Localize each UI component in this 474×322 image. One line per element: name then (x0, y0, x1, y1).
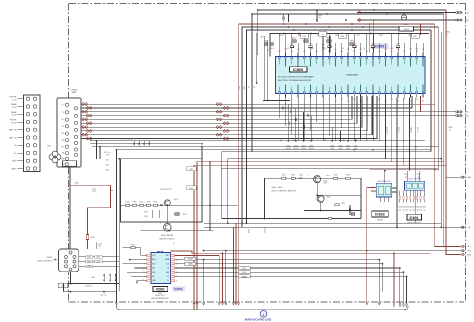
bus wire labels (86, 256, 93, 258)
IC601 inner marks (407, 183, 412, 188)
connector CN600 body (57, 98, 81, 167)
svg-text:47μ: 47μ (406, 209, 409, 211)
svg-text:(MU): (MU) (468, 254, 472, 256)
svg-text:(RST): (RST) (96, 257, 100, 259)
svg-text:(+B): (+B) (468, 227, 472, 229)
svg-text:C815: C815 (309, 44, 313, 46)
capacitor C620 (349, 205, 351, 215)
diode D602 (300, 177, 302, 179)
svg-text:DC BUS CONTROLLED POWER AMP: DC BUS CONTROLLED POWER AMP (278, 76, 314, 79)
coupling capacitors (282, 106, 284, 109)
resistor R617 (335, 204, 339, 206)
svg-text:24: 24 (422, 101, 424, 103)
IC602 left pins (371, 187, 376, 189)
Q602 emitter wire (320, 202, 322, 210)
svg-text:CXA8044AS: CXA8044AS (346, 74, 359, 77)
connector arrow CD R left (358, 19, 361, 22)
svg-text:R610: R610 (106, 164, 110, 166)
connector CNJ1 pins (26, 97, 29, 100)
svg-text:1μ: 1μ (322, 34, 324, 36)
svg-text:R631: R631 (131, 244, 135, 246)
capacitor C801 (283, 14, 285, 22)
resistor R804 (350, 43, 354, 45)
svg-text:47μ: 47μ (413, 209, 416, 211)
svg-text:2: 2 (263, 313, 265, 317)
IC605 dip body (151, 253, 171, 284)
svg-text:C810: C810 (302, 36, 306, 38)
svg-text:0.1μ: 0.1μ (98, 246, 101, 248)
bus wires (79, 256, 120, 258)
wire right drop 1 (430, 30, 432, 152)
power rail 4 (117, 149, 432, 151)
transistor Q604 (164, 224, 172, 232)
svg-text:L609 +B: L609 +B (100, 295, 106, 297)
svg-text:Q603: Q603 (174, 199, 178, 201)
svg-text:IC601: IC601 (156, 288, 165, 292)
power rail 2 (90, 143, 202, 145)
connector arrow CD R right (456, 19, 458, 21)
svg-text:INH: INH (152, 268, 155, 270)
svg-text:(B+): (B+) (468, 246, 472, 248)
svg-text:MAIN BOARD (2/3): MAIN BOARD (2/3) (245, 317, 272, 321)
wire right red drop 2 (444, 14, 459, 246)
svg-text:FR-: FR- (62, 153, 65, 155)
svg-text:μ: μ (447, 34, 448, 36)
svg-text:0.1μ: 0.1μ (416, 209, 419, 211)
svg-text:GND: GND (12, 161, 17, 163)
svg-text:IC800: IC800 (293, 68, 303, 72)
red feed right (420, 24, 422, 35)
svg-text:C803: C803 (260, 36, 264, 38)
svg-text:RL+: RL+ (62, 119, 65, 121)
svg-text:+10μ: +10μ (417, 176, 421, 178)
svg-text:IC601: IC601 (174, 287, 182, 291)
svg-text:(AU): (AU) (465, 114, 469, 117)
svg-text:C817: C817 (413, 36, 417, 38)
red wire data (222, 253, 224, 303)
svg-text:R622: R622 (144, 216, 148, 218)
wire sub bus 1 (242, 27, 438, 227)
svg-text:C812: C812 (356, 35, 360, 37)
svg-text:47μ: 47μ (419, 209, 422, 211)
diode D606 (103, 274, 105, 282)
svg-text:(CD): (CD) (465, 20, 469, 22)
svg-text:(RM): (RM) (468, 177, 472, 179)
svg-text:AUTO CONTROL SWITCH: AUTO CONTROL SWITCH (272, 189, 297, 192)
IC601 ref box (407, 214, 422, 220)
svg-text:(CE): (CE) (243, 268, 247, 270)
svg-text:1μ: 1μ (363, 48, 365, 50)
svg-text:0.022: 0.022 (286, 48, 290, 50)
red drops mid (233, 227, 235, 303)
svg-text:(CD): (CD) (465, 12, 469, 14)
svg-text:ANT +B: ANT +B (9, 137, 17, 140)
arrow right mid (461, 176, 463, 178)
wire ACC top loop (252, 13, 444, 15)
label box C811 (319, 32, 327, 36)
IC601 bottom pins (399, 190, 401, 196)
svg-text:R616: R616 (133, 202, 137, 204)
resistor R620 (175, 213, 179, 215)
IC605 blue silk (173, 287, 185, 291)
wire pin1 stub (263, 100, 290, 102)
svg-text:Q601, Q602: Q601, Q602 (272, 187, 284, 189)
transistor Q603 (164, 200, 170, 206)
dip wire p3 (123, 263, 147, 265)
svg-text:0.1μ: 0.1μ (423, 209, 426, 211)
red rail D (370, 169, 438, 171)
wire clk long (175, 271, 404, 273)
label reset (185, 257, 196, 260)
wire down 406 (406, 276, 408, 303)
bus connector pins (69, 251, 72, 254)
svg-text:0.1μ: 0.1μ (409, 209, 412, 211)
connector arrow CD L left (358, 11, 361, 14)
wire CD in R (357, 19, 456, 21)
bottom exit arrows (203, 303, 205, 305)
board boundary chain line left (68, 4, 70, 303)
svg-text:FRONT: FRONT (10, 97, 18, 99)
audio signal bundle (78, 96, 421, 104)
svg-text:C611: C611 (106, 159, 110, 161)
svg-text:C822: C822 (352, 44, 356, 46)
svg-text:D602: D602 (299, 175, 303, 177)
red rail B (194, 165, 446, 309)
junction dots top bus (326, 13, 328, 15)
battery sense wire (121, 204, 238, 206)
transistor Q601 (314, 176, 321, 183)
red rail A (197, 162, 444, 310)
wire down 203 (203, 260, 205, 303)
page number 2 (260, 311, 267, 318)
IC800 reference box (290, 67, 308, 72)
wire right red drop 3 (446, 10, 461, 255)
IC800 bottom pins (278, 85, 424, 103)
svg-text:4.7k: 4.7k (391, 48, 394, 50)
audio bundle connector diamonds (82, 103, 85, 106)
capacitor C806 10u (316, 10, 318, 22)
svg-text:MAIN: MAIN (72, 91, 77, 94)
feed stubs to top pins (278, 33, 280, 53)
svg-text:AMP +B: AMP +B (9, 129, 17, 132)
svg-text:10k: 10k (342, 48, 345, 50)
IC800 top pins (278, 49, 424, 66)
IC602 top feed (384, 171, 386, 184)
svg-text:CE: CE (167, 268, 169, 270)
connector CNJ1 body (24, 95, 41, 172)
svg-text:Q604 2SB1238: Q604 2SB1238 (161, 235, 173, 237)
resistor R803 (327, 40, 331, 42)
svg-text:R803: R803 (327, 38, 331, 40)
svg-text:VEE: VEE (152, 272, 155, 274)
svg-text:IC602: IC602 (375, 213, 385, 217)
svg-text:L-CH: L-CH (12, 99, 17, 101)
dip wire p7 (137, 280, 147, 282)
svg-text:R809: R809 (379, 35, 383, 37)
board boundary chain line right (465, 4, 467, 303)
regulator output drops (385, 98, 387, 159)
svg-text:R604: R604 (91, 237, 95, 239)
svg-text:RESET: RESET (188, 259, 193, 261)
resistor R613 (333, 177, 337, 179)
svg-text:C615 1μ: C615 1μ (104, 152, 110, 154)
svg-text:MULTIPLE VOLTAGE REGULATOR: MULTIPLE VOLTAGE REGULATOR (278, 79, 311, 82)
svg-text:D600 ACC DET: D600 ACC DET (160, 188, 172, 191)
resistor R621 (151, 210, 153, 218)
svg-text:(GND): (GND) (87, 266, 91, 268)
svg-text:C841: C841 (238, 86, 240, 90)
power amp IC800 body (276, 57, 426, 94)
svg-text:REAR: REAR (11, 111, 17, 114)
svg-text:MUTE: MUTE (377, 220, 383, 222)
IC602 pin stubs (379, 197, 381, 202)
svg-text:(CLK): (CLK) (242, 272, 247, 274)
wire CN600 down (69, 167, 71, 249)
bracket labels (239, 267, 251, 270)
wire ce long (175, 267, 400, 269)
svg-text:C829: C829 (396, 44, 400, 46)
long drop B (118, 158, 120, 292)
resistor R801 (292, 40, 296, 42)
IC602 inner cells (378, 186, 384, 195)
svg-text:R806: R806 (279, 35, 283, 37)
wire reset long (175, 259, 380, 261)
svg-text:R613: R613 (334, 175, 338, 177)
wire +B top loop (258, 10, 446, 55)
wire CD in L (357, 12, 456, 14)
power rail long (204, 226, 464, 228)
junction dots mid bus (283, 23, 285, 25)
svg-text:20: 20 (397, 101, 399, 103)
svg-text:R617: R617 (342, 203, 346, 205)
diode D801 (399, 26, 414, 31)
zener D803 (322, 36, 324, 53)
svg-text:BUP 5V: BUP 5V (416, 127, 418, 134)
svg-text:BUS INTERFACE BU: BUS INTERFACE BU (151, 297, 169, 300)
wire sense branch (209, 162, 211, 231)
svg-text:(BUS): (BUS) (47, 257, 53, 259)
black rail C (221, 168, 438, 170)
bus gnd drop (70, 272, 72, 284)
wire ACC red (70, 185, 111, 249)
dip wire p1 (141, 248, 147, 256)
connector CN600 pins (65, 103, 68, 106)
extra mid drops (353, 98, 355, 142)
red feed IC602 (367, 187, 371, 189)
wire down 382 (381, 264, 383, 292)
resistor R614b (346, 177, 350, 179)
svg-text:+10μ: +10μ (404, 176, 408, 178)
IC602 mute body (376, 183, 392, 197)
capacitor C609 (96, 243, 98, 249)
red top wire (171, 251, 430, 253)
svg-text:BEEP: BEEP (248, 229, 250, 233)
IC602 right pins (392, 187, 397, 189)
svg-text:CLK: CLK (166, 263, 169, 265)
svg-text:10μ: 10μ (318, 17, 321, 19)
capacitor C803 (264, 43, 267, 45)
svg-text:REAR: REAR (11, 103, 17, 106)
component cluster above pins (290, 46, 293, 48)
svg-text:+B: +B (247, 86, 249, 88)
svg-text:C618: C618 (189, 188, 193, 190)
svg-text:FRONT: FRONT (10, 120, 18, 122)
cap C621 box (328, 217, 331, 219)
wire bus long (175, 275, 407, 277)
wire right drop 3 (440, 32, 442, 227)
left chip feeds (256, 33, 258, 83)
battery box corner relief (201, 147, 203, 159)
red wire rd (435, 245, 461, 247)
board boundary chain line bottom (69, 301, 465, 303)
wire sda (204, 250, 461, 252)
IC800 blue silk label (372, 44, 389, 49)
capacitor C804 (270, 43, 273, 45)
svg-text:R614: R614 (346, 175, 350, 177)
battery check enclosure (121, 159, 203, 222)
svg-text:R805: R805 (449, 127, 453, 129)
gnd rail (60, 283, 120, 285)
svg-text:C617: C617 (189, 169, 193, 171)
capacitor C802 (288, 14, 290, 22)
svg-text:C609: C609 (98, 244, 102, 246)
svg-text:22: 22 (409, 101, 411, 103)
wire down 379 (378, 260, 380, 303)
svg-text:RR+: RR+ (61, 133, 64, 135)
svg-text:D801: D801 (404, 24, 408, 26)
inner loop above chip (270, 34, 429, 57)
battery check annotation (141, 230, 214, 232)
svg-text:R621: R621 (144, 212, 148, 214)
wire right red drop (434, 24, 436, 246)
red wire down 393 (393, 253, 395, 303)
switch wire right (321, 194, 361, 196)
svg-text:BATTERY CHECK: BATTERY CHECK (160, 237, 176, 240)
svg-text:B-IN: B-IN (152, 263, 155, 265)
smoothing cap drops (287, 104, 289, 141)
svg-text:R804: R804 (350, 41, 354, 43)
svg-text:CE BUS: CE BUS (265, 227, 267, 233)
svg-text:C816: C816 (340, 36, 344, 38)
cable clover symbol (49, 154, 55, 160)
svg-text:R619: R619 (154, 202, 158, 204)
bottom exit circles (393, 303, 395, 305)
svg-text:(8V): (8V) (465, 112, 469, 114)
wire data long (175, 263, 383, 265)
wire battery red bus (239, 24, 435, 303)
sense resistors (125, 204, 130, 206)
svg-text:SYS 5V: SYS 5V (397, 127, 399, 134)
power rail 3 (92, 146, 438, 148)
svg-text:R611: R611 (282, 175, 286, 177)
svg-text:R608 1M: R608 1M (85, 286, 92, 288)
svg-text:8V: 8V (252, 86, 254, 88)
svg-text:R617: R617 (140, 202, 144, 204)
svg-text:C610: C610 (106, 154, 110, 156)
svg-text:IC800: IC800 (375, 45, 384, 49)
board boundary chain line top (69, 3, 466, 5)
resistor R631 (131, 247, 135, 249)
svg-text:47μ: 47μ (324, 48, 327, 50)
svg-text:FL+: FL+ (62, 104, 65, 106)
svg-text:RR-: RR- (62, 140, 65, 142)
wire collector down (166, 206, 168, 224)
rail capacitors (133, 141, 135, 146)
svg-text:BATT: BATT (12, 168, 18, 171)
capacitor C617 box (187, 167, 197, 171)
svg-text:RL-: RL- (62, 126, 65, 128)
wire down 403 (402, 272, 404, 303)
inner rail B (228, 159, 441, 224)
wire right drop 2 (437, 27, 439, 171)
IC601 top caps (406, 171, 408, 181)
dip wire p4 (135, 267, 147, 269)
svg-text:MAIN, RC REG: MAIN, RC REG (407, 222, 421, 225)
wire sub bus 2 (247, 30, 432, 223)
svg-text:C825: C825 (371, 44, 375, 46)
gnd rail 2 (64, 291, 117, 293)
svg-text:0.1μ: 0.1μ (402, 209, 405, 211)
red wire reset (175, 254, 220, 256)
power rail 1 (90, 140, 425, 142)
svg-text:R611: R611 (106, 169, 110, 171)
svg-text:C812: C812 (290, 44, 294, 46)
label data (185, 262, 196, 265)
svg-text:D606: D606 (91, 277, 95, 279)
svg-text:C651: C651 (404, 174, 408, 176)
rail drops (96, 141, 98, 159)
label box C816 (339, 34, 347, 38)
svg-text:(CLK): (CLK) (97, 261, 101, 263)
svg-text:FR+: FR+ (62, 146, 65, 148)
audio line arrows right (456, 115, 458, 117)
svg-text:Q601: Q601 (324, 181, 328, 183)
svg-text:R620: R620 (183, 214, 187, 216)
bottom shield line (117, 306, 409, 310)
bus connector body (58, 249, 78, 272)
svg-text:IC601: IC601 (409, 216, 418, 220)
svg-text:2SB?: 2SB? (324, 183, 328, 185)
svg-text:100k: 100k (310, 48, 314, 50)
connector CN600 shell box (63, 161, 77, 167)
svg-text:8: 8 (176, 280, 177, 282)
svg-text:L-CH: L-CH (12, 107, 17, 109)
amplifier pin drop field (278, 98, 280, 119)
label box C810 (301, 34, 309, 38)
wire down 399 (399, 268, 401, 303)
svg-text:R801: R801 (292, 38, 296, 40)
IC605 left pins (147, 254, 151, 256)
ce clk cross dots (366, 250, 368, 252)
zener D804 (329, 36, 331, 53)
svg-text:R612: R612 (291, 175, 295, 177)
svg-text:0.1μ: 0.1μ (416, 48, 419, 50)
transistor Q801 (401, 15, 406, 20)
capacitor C618 box (187, 186, 197, 190)
svg-text:C660: C660 (422, 207, 426, 209)
svg-text:R-CH: R-CH (12, 115, 18, 117)
svg-text:Q602: Q602 (327, 197, 331, 199)
capacitor C608 (58, 283, 68, 287)
svg-text:1k: 1k (450, 129, 452, 131)
svg-text:C612: C612 (92, 188, 96, 190)
dip wire p6 (131, 275, 147, 277)
svg-text:BUS: BUS (166, 272, 169, 274)
svg-text:4.7: 4.7 (173, 243, 175, 245)
mute rail (204, 222, 441, 224)
IC602 ref box (372, 211, 389, 217)
svg-text:Q801: Q801 (402, 13, 406, 15)
